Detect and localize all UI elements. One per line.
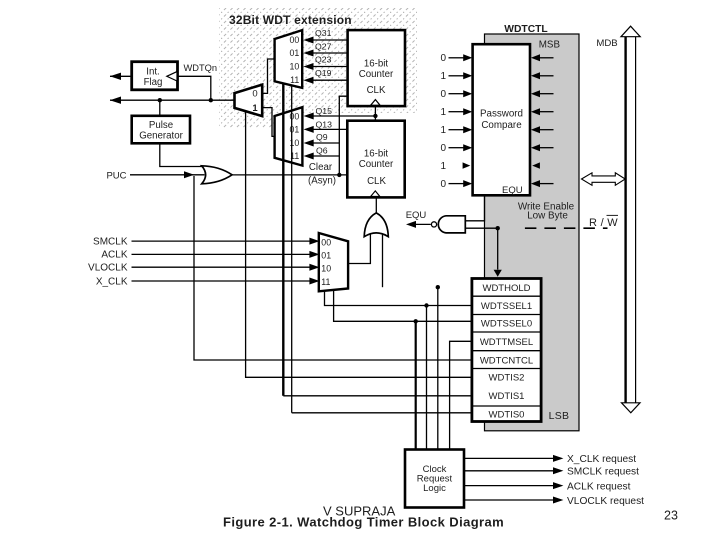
wire: PUC bbox=[130, 174, 205, 176]
svg-text:01: 01 bbox=[290, 125, 300, 135]
node: WDTSSEL1 tap bbox=[424, 303, 428, 307]
wire: VLOCLK bbox=[132, 266, 313, 268]
arrow: Q6 bbox=[304, 153, 314, 160]
password right-side data-bus wires bbox=[540, 58, 554, 184]
wire: Q6 bbox=[311, 155, 339, 157]
svg-text:00: 00 bbox=[290, 112, 300, 122]
svg-text:10: 10 bbox=[290, 61, 300, 71]
svg-text:Low Byte: Low Byte bbox=[527, 211, 568, 222]
node: WDTSSEL0 tap bbox=[414, 319, 418, 323]
arrow: SMCLK bbox=[309, 238, 319, 245]
svg-text:WDTTMSEL: WDTTMSEL bbox=[480, 337, 533, 348]
node: pulse tap bbox=[158, 98, 162, 102]
box: Clock Request Logic bbox=[405, 450, 464, 508]
svg-text:23: 23 bbox=[664, 509, 678, 523]
svg-text:Q31: Q31 bbox=[315, 28, 332, 38]
password left input arrowheads bbox=[463, 54, 473, 187]
svg-text:Clear: Clear bbox=[309, 162, 333, 173]
svg-text:Flag: Flag bbox=[144, 77, 163, 88]
wire: OR2 out to counter CLK bbox=[375, 197, 377, 213]
svg-text:WDTCTL: WDTCTL bbox=[504, 24, 547, 35]
box: 16-bit counter (upper) bbox=[348, 30, 405, 106]
svg-text:Counter: Counter bbox=[359, 159, 394, 170]
svg-text:10: 10 bbox=[290, 138, 300, 148]
arrow: Q19 bbox=[303, 77, 313, 84]
OR gate G2 (clock fail, pointing up) bbox=[364, 213, 388, 237]
wire: CRL line a bbox=[426, 306, 428, 450]
svg-text:ACLK request: ACLK request bbox=[567, 481, 631, 492]
wire: Q9 bbox=[311, 142, 339, 144]
svg-text:VLOCLK request: VLOCLK request bbox=[567, 496, 644, 507]
wire: M1 out to M3 input0 bbox=[262, 59, 274, 93]
svg-text:WDTQn: WDTQn bbox=[184, 63, 218, 73]
arrow: ACLK bbox=[309, 251, 319, 258]
svg-text:EQU: EQU bbox=[502, 185, 523, 196]
register stack: WDTCTL bit fields bbox=[472, 279, 541, 422]
svg-text:SMCLK request: SMCLK request bbox=[567, 467, 639, 478]
svg-text:Q13: Q13 bbox=[316, 119, 333, 129]
wire: OR1 out / Clear (Asyn) bbox=[232, 174, 347, 176]
svg-text:X_CLK request: X_CLK request bbox=[567, 454, 636, 465]
password fixed-bit digits 0/1 column bbox=[440, 53, 446, 190]
wire: ACLK bbox=[132, 253, 313, 255]
wire: EQU to NAND top input bbox=[465, 195, 484, 221]
box: Int. Flag bbox=[132, 62, 178, 90]
arrow: Q13 bbox=[304, 126, 314, 133]
wire: Q31 bbox=[312, 39, 348, 41]
wire: OR2 input2 dangling bbox=[382, 234, 384, 287]
wire: M2 select line bbox=[291, 86, 293, 413]
wire: Q19 bbox=[312, 79, 348, 81]
junction dots bbox=[158, 98, 500, 323]
svg-text:R / W: R / W bbox=[589, 217, 618, 229]
svg-text:Q23: Q23 bbox=[315, 55, 332, 65]
wire: M4 select WDTSSEL1 bbox=[325, 291, 472, 306]
svg-text:WDTHOLD: WDTHOLD bbox=[482, 283, 530, 294]
svg-text:Figure 2-1. Watchdog Timer Blo: Figure 2-1. Watchdog Timer Block Diagram bbox=[223, 514, 504, 529]
mux M2 (lower 4:1, Q15..Q6) bbox=[275, 107, 303, 165]
svg-text:VLOCLK: VLOCLK bbox=[88, 263, 128, 274]
svg-text:Generator: Generator bbox=[139, 131, 183, 142]
arrow: X_CLK bbox=[309, 278, 319, 285]
svg-text:WDTSSEL1: WDTSSEL1 bbox=[481, 301, 532, 312]
svg-text:WDTSSEL0: WDTSSEL0 bbox=[481, 318, 532, 329]
wire: NAND bottom input bbox=[465, 227, 497, 229]
svg-text:Pulse: Pulse bbox=[149, 120, 173, 131]
svg-text:00: 00 bbox=[290, 35, 300, 45]
svg-text:1: 1 bbox=[252, 103, 258, 114]
svg-text:Compare: Compare bbox=[481, 120, 522, 131]
svg-text:Q27: Q27 bbox=[315, 42, 332, 52]
wire: write strobe down bbox=[497, 228, 499, 269]
wire: PUC tap down to WDTCNTCL bbox=[194, 176, 472, 360]
svg-text:Password: Password bbox=[480, 109, 523, 120]
svg-text:Q15: Q15 bbox=[316, 106, 333, 116]
arrow: Q31 bbox=[303, 37, 313, 44]
node: Q15 tap bbox=[373, 114, 377, 118]
wire: X_CLK bbox=[132, 280, 313, 282]
mux M4 (clock select 4:1) bbox=[319, 233, 348, 291]
labels: clock sources bbox=[88, 236, 128, 287]
svg-text:11: 11 bbox=[321, 277, 330, 287]
svg-text:1: 1 bbox=[440, 125, 446, 136]
svg-text:16-bit: 16-bit bbox=[364, 149, 389, 160]
wire: M4 out to OR2 bbox=[348, 234, 370, 264]
svg-text:EQU: EQU bbox=[406, 210, 427, 221]
svg-text:MDB: MDB bbox=[596, 38, 617, 49]
svg-text:(Asyn): (Asyn) bbox=[308, 176, 336, 187]
OR gate G1 (PUC) bbox=[202, 166, 232, 184]
svg-text:11: 11 bbox=[290, 75, 299, 85]
svg-text:WDTIS1: WDTIS1 bbox=[489, 391, 525, 402]
labels: clock request outputs bbox=[567, 454, 644, 507]
arrowheads (filled) bbox=[110, 37, 502, 285]
wire: M1 select line (thick) bbox=[282, 83, 284, 396]
wire: Q13 bbox=[311, 128, 347, 130]
wire: counter tap bus bbox=[339, 96, 347, 175]
svg-text:0: 0 bbox=[440, 53, 446, 64]
wire: M3 select to WDTIS2 bbox=[246, 112, 472, 378]
arrow: Q9 bbox=[304, 140, 314, 147]
wire: WDTSSEL0 down to CRL (thick) bbox=[415, 321, 417, 449]
svg-text:X_CLK: X_CLK bbox=[96, 276, 128, 287]
wire: EQU arrow line bbox=[415, 223, 431, 225]
wire: Q27 bbox=[312, 52, 348, 54]
svg-text:Int.: Int. bbox=[146, 67, 159, 78]
svg-text:MSB: MSB bbox=[539, 39, 561, 50]
svg-text:PUC: PUC bbox=[106, 170, 126, 181]
box: 16-bit counter (lower) bbox=[347, 121, 404, 198]
wire: pulse gen top bbox=[159, 100, 161, 116]
svg-text:CLK: CLK bbox=[367, 85, 386, 96]
arrow: EQU out bbox=[406, 221, 416, 228]
labels Q15..Q6 follow Q31..Q19 bbox=[315, 28, 332, 155]
password left input wires bbox=[449, 58, 465, 184]
wire: IntFlag left out bbox=[110, 75, 132, 77]
clock request output wires bbox=[464, 458, 554, 500]
node: WDTQn tap bbox=[209, 98, 213, 102]
node: clear line tap bbox=[337, 173, 341, 177]
svg-text:1: 1 bbox=[440, 107, 446, 118]
box: Pulse Generator bbox=[132, 116, 190, 144]
svg-text:Q9: Q9 bbox=[316, 132, 328, 142]
svg-text:0: 0 bbox=[440, 143, 446, 154]
wire: R/W dashed bbox=[525, 227, 608, 229]
wire: M4 select WDTSSEL0 bbox=[334, 290, 472, 321]
wire: Q15 bbox=[312, 115, 375, 117]
wire: M2 out to M3 input1 bbox=[262, 108, 274, 137]
arrow: VLOCLK bbox=[309, 264, 319, 271]
svg-text:0: 0 bbox=[440, 179, 446, 190]
svg-text:10: 10 bbox=[321, 264, 331, 274]
svg-text:32Bit WDT extension: 32Bit WDT extension bbox=[229, 13, 352, 27]
wires group 1 bbox=[110, 40, 498, 450]
svg-text:01: 01 bbox=[321, 251, 331, 261]
svg-text:Q6: Q6 bbox=[316, 146, 328, 156]
svg-text:WDTIS0: WDTIS0 bbox=[489, 410, 525, 421]
arrow: main Q left bbox=[110, 97, 121, 104]
svg-text:01: 01 bbox=[290, 48, 300, 58]
svg-text:Q19: Q19 bbox=[315, 68, 332, 78]
hatched region: 32Bit WDT extension bbox=[219, 8, 417, 113]
svg-text:CLK: CLK bbox=[367, 176, 386, 187]
svg-text:WDTIS2: WDTIS2 bbox=[489, 373, 525, 384]
svg-text:16-bit: 16-bit bbox=[364, 59, 389, 70]
wire: main Q line bbox=[110, 99, 235, 101]
wire: CRL line c / WDTTMSEL bbox=[450, 341, 472, 449]
register U2: Password Compare bbox=[473, 44, 530, 196]
svg-text:WDTCNTCL: WDTCNTCL bbox=[480, 356, 533, 367]
svg-text:1: 1 bbox=[440, 161, 446, 172]
svg-text:LSB: LSB bbox=[549, 410, 570, 422]
svg-text:Counter: Counter bbox=[359, 69, 394, 80]
wire: pulse gen to OR bbox=[160, 143, 204, 166]
wire: cascade bbox=[374, 106, 376, 121]
bus connection double arrow bbox=[582, 173, 626, 186]
mux M1 (upper 4:1, Q31..Q19) bbox=[275, 30, 303, 88]
wire: WDTQn tap bbox=[178, 76, 211, 100]
wire: CRL line b bbox=[437, 287, 439, 449]
svg-text:1: 1 bbox=[440, 71, 446, 82]
node: R/W tap bbox=[496, 226, 500, 230]
mux M3 (2:1) bbox=[235, 85, 263, 117]
wire: SMCLK bbox=[132, 240, 313, 242]
arrow: IntFlag out left bbox=[110, 73, 121, 80]
wire: Q23 bbox=[312, 66, 348, 68]
arrow: write strobe down bbox=[494, 270, 502, 277]
svg-text:SMCLK: SMCLK bbox=[93, 236, 128, 247]
svg-text:0: 0 bbox=[252, 89, 257, 100]
MDB bus vertical arrow bbox=[621, 26, 640, 413]
clock request output arrowheads bbox=[553, 455, 563, 504]
gray WDTCTL register box bbox=[485, 34, 580, 431]
svg-text:ACLK: ACLK bbox=[101, 250, 127, 261]
node: WDTHOLD line top bbox=[436, 285, 440, 289]
svg-text:Logic: Logic bbox=[423, 483, 446, 494]
password right-side arrowheads bbox=[531, 54, 540, 187]
svg-text:0: 0 bbox=[440, 89, 446, 100]
arrow: Q15 bbox=[304, 113, 314, 120]
NAND gate U1 (pointing left) bbox=[438, 216, 465, 233]
svg-text:00: 00 bbox=[321, 238, 331, 248]
arrow: PUC into OR bbox=[184, 171, 194, 178]
arrow: Q27 bbox=[303, 50, 313, 57]
arrow: Q23 bbox=[303, 63, 313, 70]
